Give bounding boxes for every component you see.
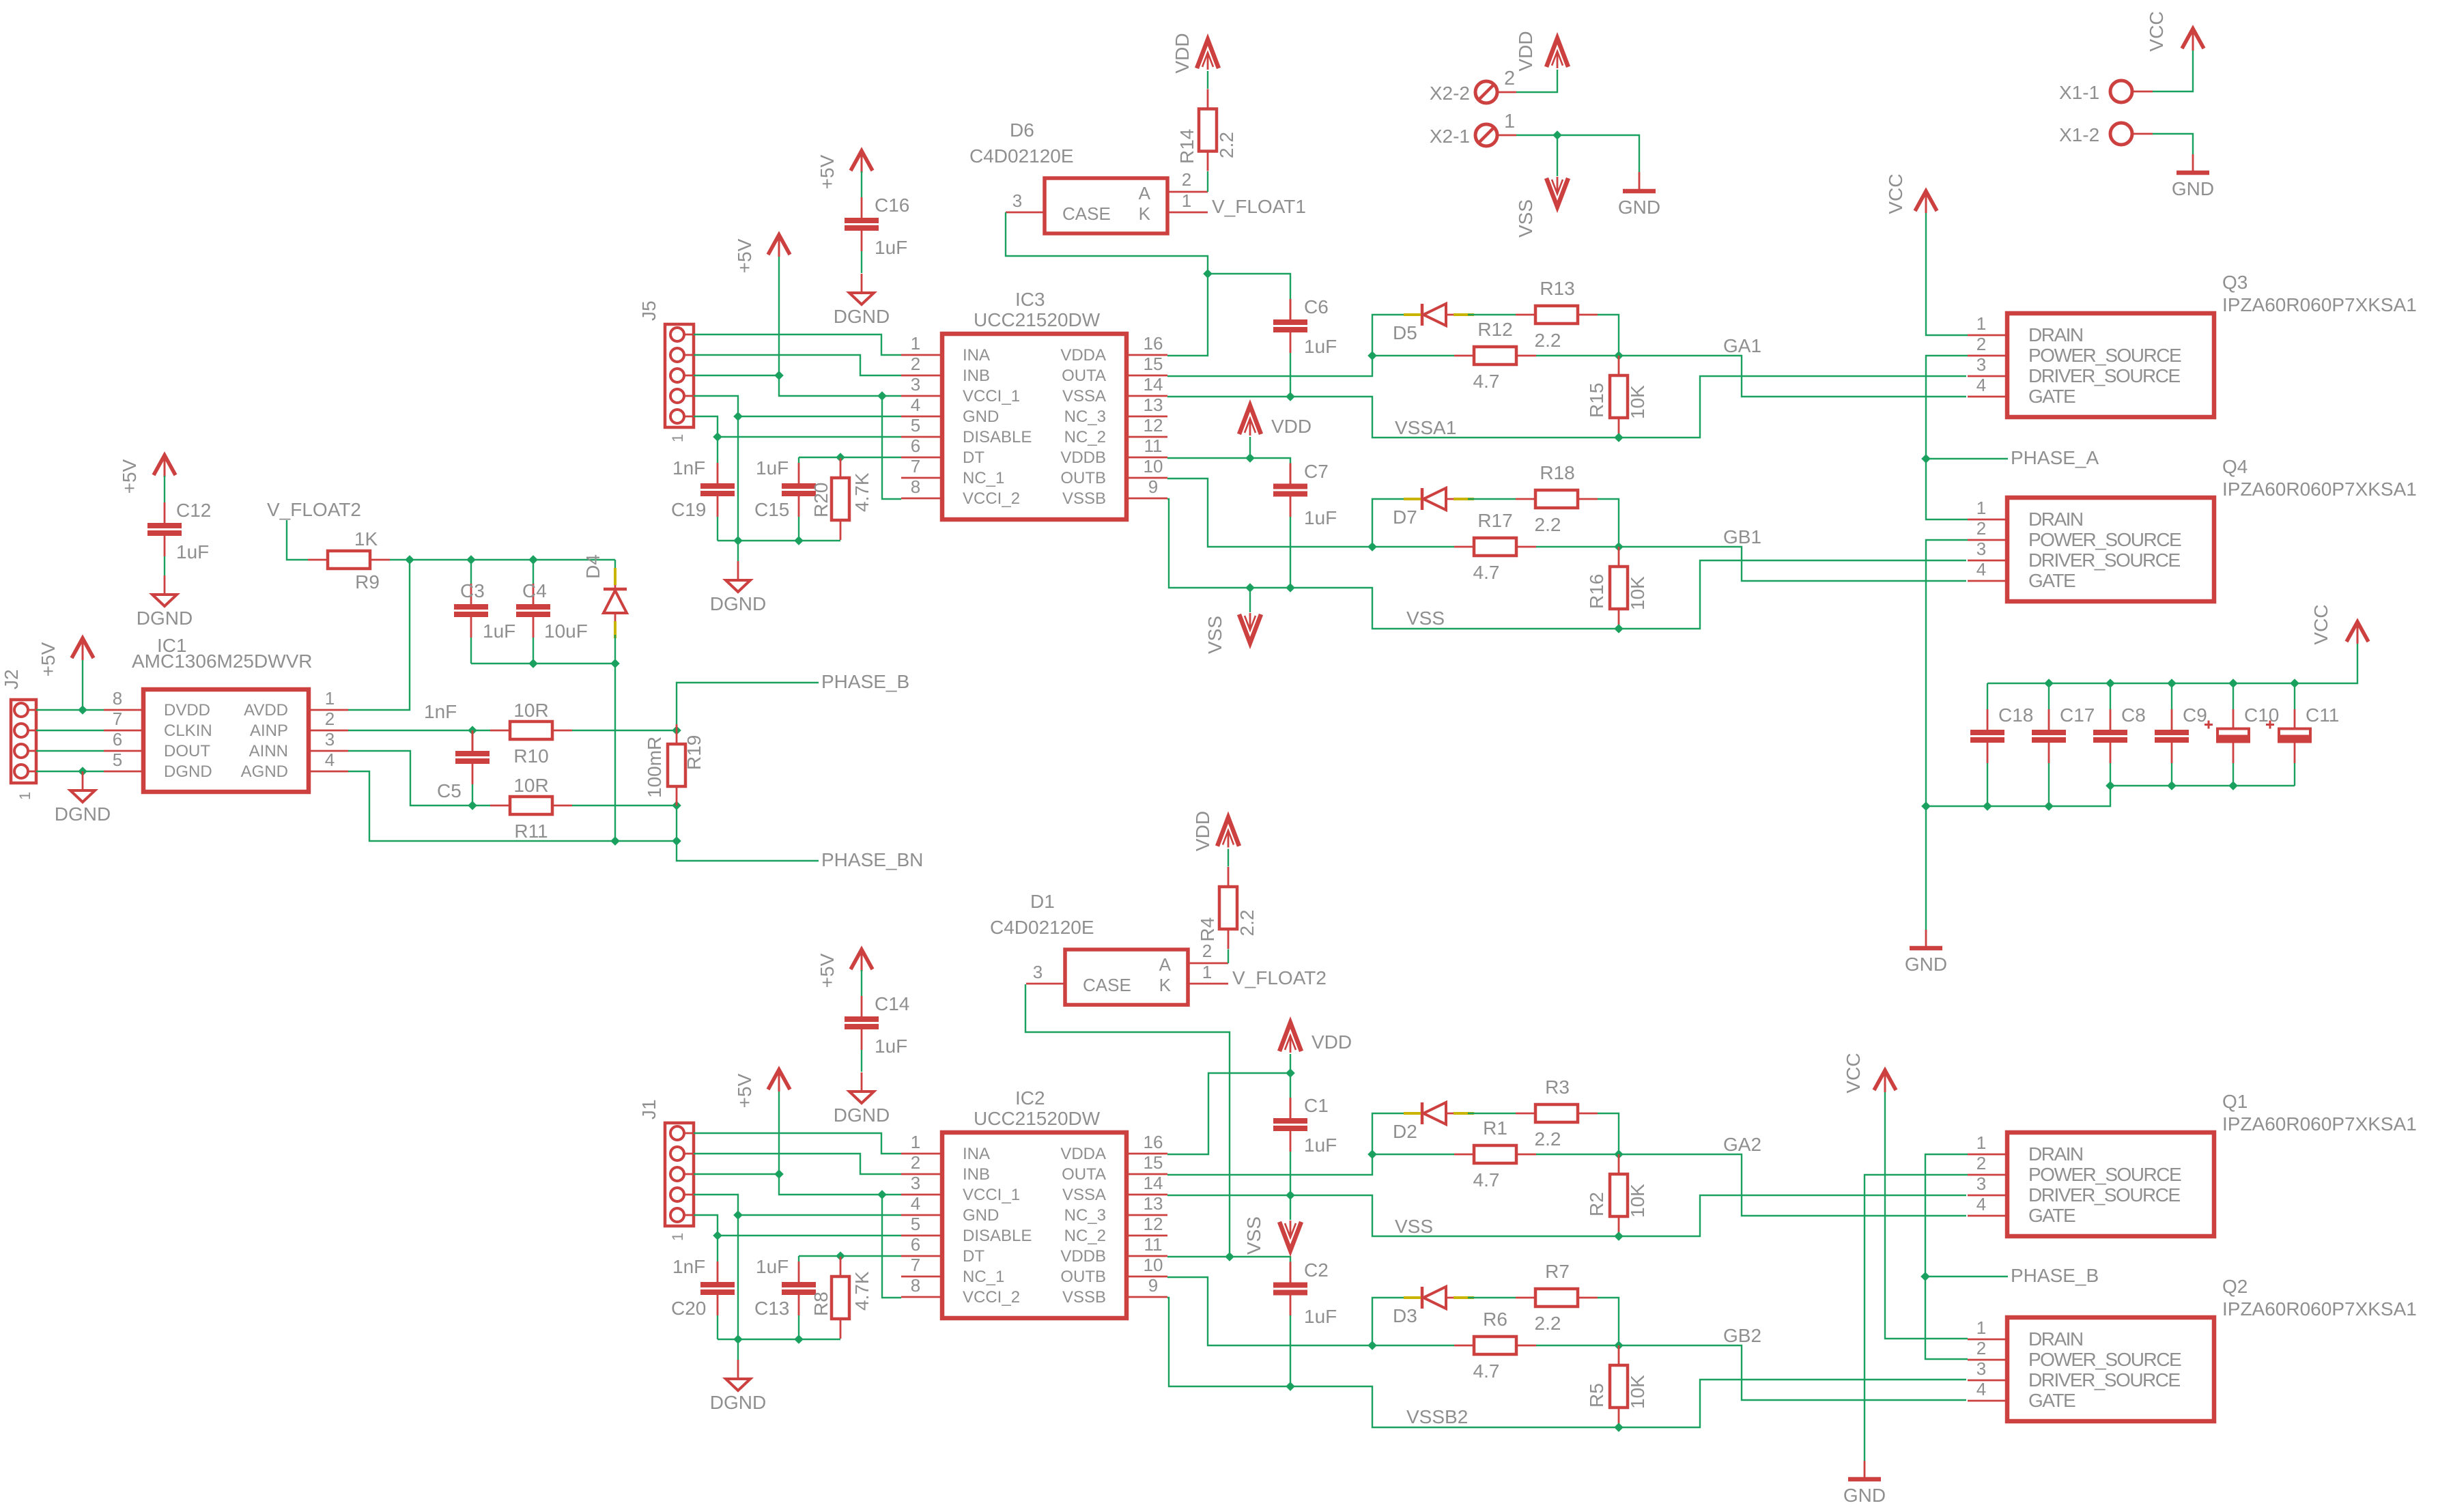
svg-text:VSSA: VSSA bbox=[1062, 1186, 1106, 1204]
svg-text:IPZA60R060P7XKSA1: IPZA60R060P7XKSA1 bbox=[2222, 479, 2417, 500]
svg-text:C2: C2 bbox=[1304, 1259, 1329, 1281]
svg-text:R9: R9 bbox=[355, 571, 380, 593]
label VSSB2 bbox=[1406, 1406, 1468, 1427]
capacitor C5 bbox=[424, 701, 490, 805]
wire D6 case bbox=[1006, 212, 1208, 274]
svg-text:VDDA: VDDA bbox=[1060, 346, 1106, 365]
svg-text:K: K bbox=[1139, 203, 1151, 224]
svg-text:R3: R3 bbox=[1545, 1076, 1570, 1098]
svg-text:3: 3 bbox=[1976, 1358, 1986, 1379]
svg-text:3: 3 bbox=[1012, 190, 1022, 211]
svg-text:10R: 10R bbox=[513, 700, 548, 721]
wire INB bbox=[694, 1154, 901, 1174]
svg-text:C5: C5 bbox=[437, 780, 462, 801]
svg-text:VSSA: VSSA bbox=[1062, 387, 1106, 405]
svg-text:PHASE_B: PHASE_B bbox=[821, 671, 909, 692]
label VSS bbox=[1406, 608, 1445, 629]
svg-text:NC_1: NC_1 bbox=[963, 1268, 1004, 1286]
label VSS bbox=[1395, 1216, 1433, 1237]
svg-text:2.2: 2.2 bbox=[1216, 132, 1237, 158]
svg-text:DRIVER_SOURCE: DRIVER_SOURCE bbox=[2028, 550, 2180, 571]
label V_FLOAT2 left bbox=[267, 499, 361, 560]
svg-text:Q2: Q2 bbox=[2222, 1276, 2248, 1297]
capacitor C4 bbox=[516, 560, 588, 664]
svg-text:2.2: 2.2 bbox=[1535, 330, 1561, 351]
svg-text:DRIVER_SOURCE: DRIVER_SOURCE bbox=[2028, 365, 2180, 386]
connector J5 bbox=[638, 300, 694, 442]
svg-text:13: 13 bbox=[1144, 395, 1163, 415]
svg-text:VDD: VDD bbox=[1312, 1031, 1352, 1053]
resistor R7 bbox=[1516, 1261, 1598, 1334]
capacitor C9 bbox=[2155, 683, 2207, 786]
svg-text:R12: R12 bbox=[1477, 319, 1512, 340]
resistor R4 bbox=[1197, 867, 1258, 949]
svg-text:D1: D1 bbox=[1030, 891, 1055, 912]
svg-text:C20: C20 bbox=[671, 1298, 706, 1319]
svg-text:10K: 10K bbox=[1627, 576, 1648, 610]
svg-text:VSS: VSS bbox=[1406, 608, 1445, 629]
svg-text:C12: C12 bbox=[176, 500, 211, 521]
svg-text:GB1: GB1 bbox=[1723, 526, 1761, 547]
svg-text:DT: DT bbox=[963, 1247, 984, 1266]
wire VSS-Q bbox=[1619, 1380, 1966, 1427]
svg-text:4.7K: 4.7K bbox=[851, 472, 873, 512]
wire R11-R19 bbox=[572, 801, 681, 810]
resistor R8 bbox=[810, 1257, 873, 1339]
svg-text:DRIVER_SOURCE: DRIVER_SOURCE bbox=[2028, 1184, 2180, 1206]
svg-text:8: 8 bbox=[911, 476, 920, 497]
capacitor C12 bbox=[147, 476, 211, 575]
svg-text:OUTB: OUTB bbox=[1060, 1268, 1106, 1286]
wire INA bbox=[694, 334, 901, 355]
wire D5-R13 bbox=[1468, 1113, 1516, 1114]
svg-text:6: 6 bbox=[113, 729, 122, 750]
power VCC X1 bbox=[2146, 11, 2204, 51]
svg-text:D2: D2 bbox=[1393, 1121, 1417, 1142]
svg-text:D6: D6 bbox=[1010, 119, 1034, 141]
svg-text:2.2: 2.2 bbox=[1236, 910, 1258, 937]
svg-text:IPZA60R060P7XKSA1: IPZA60R060P7XKSA1 bbox=[2222, 1113, 2417, 1135]
svg-text:R18: R18 bbox=[1540, 462, 1574, 483]
svg-text:NC_1: NC_1 bbox=[963, 469, 1004, 487]
svg-text:VCCI_1: VCCI_1 bbox=[963, 387, 1020, 405]
capacitor C14 bbox=[845, 970, 909, 1072]
wire D7-R18 bbox=[1468, 1297, 1516, 1298]
svg-text:DGND: DGND bbox=[834, 1104, 890, 1126]
svg-text:13: 13 bbox=[1144, 1193, 1163, 1214]
svg-text:DRAIN: DRAIN bbox=[2028, 324, 2083, 345]
svg-text:2: 2 bbox=[911, 1152, 920, 1173]
ground GND mid bbox=[1905, 930, 1947, 975]
svg-text:VCCI_2: VCCI_2 bbox=[963, 489, 1020, 508]
svg-text:C4: C4 bbox=[522, 580, 547, 601]
svg-text:3: 3 bbox=[1976, 354, 1986, 375]
svg-text:6: 6 bbox=[911, 436, 920, 456]
wire VSSA1-Q bbox=[1619, 376, 1966, 438]
svg-text:4.7K: 4.7K bbox=[851, 1271, 873, 1311]
resistor R3 bbox=[1516, 1076, 1598, 1150]
svg-text:NC_2: NC_2 bbox=[1064, 428, 1106, 446]
wire DISABLE bbox=[694, 1215, 901, 1240]
svg-text:Q3: Q3 bbox=[2222, 272, 2248, 293]
svg-text:2.2: 2.2 bbox=[1535, 514, 1561, 535]
capacitor C19 bbox=[671, 437, 735, 541]
svg-text:Q1: Q1 bbox=[2222, 1091, 2248, 1112]
svg-text:Q4: Q4 bbox=[2222, 456, 2248, 477]
svg-text:VDDB: VDDB bbox=[1060, 1247, 1106, 1266]
wire VSSB bbox=[1167, 1298, 1624, 1432]
power VDD top bbox=[1192, 811, 1239, 867]
wire R12a bbox=[1372, 355, 1454, 356]
wire dgnd rail bbox=[718, 1335, 840, 1360]
wire DOUT bbox=[36, 750, 104, 752]
svg-text:3: 3 bbox=[1033, 962, 1043, 982]
svg-text:C17: C17 bbox=[2060, 704, 2095, 726]
svg-text:10K: 10K bbox=[1627, 385, 1648, 419]
svg-text:J1: J1 bbox=[638, 1099, 660, 1119]
svg-text:V_FLOAT1: V_FLOAT1 bbox=[1212, 196, 1306, 217]
wire VCC-Q2 bbox=[1885, 1092, 1968, 1339]
wire OUTB bbox=[1167, 1277, 1406, 1350]
svg-text:+5V: +5V bbox=[817, 953, 838, 988]
svg-text:GATE: GATE bbox=[2028, 386, 2075, 407]
svg-text:DT: DT bbox=[963, 448, 984, 467]
wire INA bbox=[694, 1133, 901, 1154]
svg-text:AVDD: AVDD bbox=[244, 701, 288, 719]
wire D1 case bbox=[1025, 984, 1234, 1261]
svg-text:DRAIN: DRAIN bbox=[2028, 509, 2083, 530]
svg-text:14: 14 bbox=[1144, 1173, 1163, 1193]
ground DGND bbox=[710, 1360, 766, 1413]
svg-text:1: 1 bbox=[1504, 111, 1515, 132]
wire R9 rail bbox=[390, 555, 615, 565]
svg-text:1: 1 bbox=[911, 1132, 920, 1152]
svg-text:1: 1 bbox=[1976, 1132, 1986, 1153]
svg-text:GND: GND bbox=[963, 408, 999, 426]
svg-text:1: 1 bbox=[1976, 498, 1986, 518]
svg-text:IPZA60R060P7XKSA1: IPZA60R060P7XKSA1 bbox=[2222, 1298, 2417, 1320]
svg-text:DGND: DGND bbox=[834, 306, 890, 327]
svg-text:X1-2: X1-2 bbox=[2059, 124, 2099, 145]
svg-text:VCC: VCC bbox=[1885, 173, 1906, 214]
svg-text:DOUT: DOUT bbox=[164, 742, 210, 760]
wire R13-GA bbox=[1598, 1113, 1619, 1154]
svg-text:1uF: 1uF bbox=[1304, 1135, 1337, 1156]
svg-text:X2-2: X2-2 bbox=[1430, 83, 1470, 104]
wire R12a bbox=[1372, 1154, 1454, 1155]
wire DT bbox=[799, 453, 901, 462]
svg-text:8: 8 bbox=[911, 1275, 920, 1296]
power VDD X2 bbox=[1515, 31, 1568, 71]
wire CLKIN bbox=[36, 730, 104, 731]
svg-text:IC3: IC3 bbox=[1015, 289, 1045, 310]
svg-text:1: 1 bbox=[911, 333, 920, 354]
svg-text:C19: C19 bbox=[671, 499, 706, 520]
svg-text:OUTA: OUTA bbox=[1062, 1165, 1106, 1184]
resistor R1 bbox=[1454, 1117, 1536, 1190]
wire Q1-PHASE_B bbox=[1920, 1154, 1968, 1359]
capacitor C16 bbox=[845, 171, 909, 273]
svg-text:D3: D3 bbox=[1393, 1305, 1417, 1326]
wire GND pin4 bbox=[694, 1195, 901, 1339]
wire +5V to VCCI bbox=[694, 1091, 901, 1199]
wire DISABLE bbox=[694, 416, 901, 442]
power +5V C12 bbox=[119, 455, 175, 494]
svg-text:1nF: 1nF bbox=[672, 457, 705, 479]
svg-text:VSSB: VSSB bbox=[1062, 1288, 1106, 1307]
svg-text:R14: R14 bbox=[1176, 129, 1197, 164]
svg-text:VDD: VDD bbox=[1192, 811, 1213, 851]
resistor R12 bbox=[1454, 319, 1536, 392]
svg-text:16: 16 bbox=[1144, 1132, 1163, 1152]
power VSS X2 bbox=[1515, 177, 1568, 238]
svg-text:VSSB2: VSSB2 bbox=[1406, 1406, 1468, 1427]
svg-text:14: 14 bbox=[1144, 374, 1163, 395]
svg-text:2.2: 2.2 bbox=[1535, 1313, 1561, 1334]
label PHASE_A bbox=[1926, 447, 2099, 468]
svg-text:R5: R5 bbox=[1586, 1383, 1607, 1408]
capacitor C8 bbox=[2093, 683, 2146, 786]
svg-text:VSS: VSS bbox=[1243, 1216, 1264, 1255]
connector X1 bbox=[2059, 81, 2153, 145]
svg-text:DRAIN: DRAIN bbox=[2028, 1328, 2083, 1350]
svg-text:2: 2 bbox=[1976, 518, 1986, 539]
svg-text:3: 3 bbox=[325, 729, 335, 750]
svg-text:OUTB: OUTB bbox=[1060, 469, 1106, 487]
svg-text:1nF: 1nF bbox=[672, 1256, 705, 1277]
svg-text:V_FLOAT2: V_FLOAT2 bbox=[267, 499, 361, 520]
power VCC bank bbox=[2310, 604, 2368, 644]
svg-text:DGND: DGND bbox=[137, 608, 193, 629]
resistor R6 bbox=[1454, 1309, 1536, 1382]
diode D2 bbox=[1393, 1102, 1474, 1142]
svg-text:VDD: VDD bbox=[1515, 31, 1536, 71]
svg-text:CLKIN: CLKIN bbox=[164, 722, 212, 740]
svg-text:VSS: VSS bbox=[1204, 616, 1225, 654]
svg-text:4: 4 bbox=[1976, 1194, 1986, 1214]
power +5V col bbox=[817, 950, 873, 988]
svg-text:GND: GND bbox=[963, 1206, 999, 1225]
svg-text:7: 7 bbox=[911, 456, 920, 476]
power VDD top bbox=[1172, 33, 1219, 89]
svg-text:10K: 10K bbox=[1627, 1375, 1648, 1409]
svg-text:POWER_SOURCE: POWER_SOURCE bbox=[2028, 345, 2181, 366]
svg-text:DGND: DGND bbox=[55, 803, 111, 825]
svg-text:IC2: IC2 bbox=[1015, 1087, 1045, 1109]
ground GND X1 bbox=[2172, 154, 2214, 199]
svg-text:GATE: GATE bbox=[2028, 1205, 2075, 1226]
svg-text:C6: C6 bbox=[1304, 296, 1329, 317]
svg-text:2: 2 bbox=[911, 354, 920, 374]
svg-text:OUTA: OUTA bbox=[1062, 367, 1106, 385]
svg-text:C10: C10 bbox=[2244, 704, 2279, 726]
svg-text:VDD: VDD bbox=[1172, 33, 1193, 73]
transistor Q3 IPZA60R060P7XKSA1 bbox=[1968, 272, 2417, 417]
svg-text:1: 1 bbox=[1182, 190, 1191, 211]
diode D3 bbox=[1393, 1287, 1474, 1326]
resistor R11 bbox=[490, 775, 572, 842]
svg-text:AGND: AGND bbox=[241, 762, 288, 781]
svg-text:+5V: +5V bbox=[734, 238, 755, 273]
svg-text:VDD: VDD bbox=[1271, 416, 1312, 437]
svg-text:C3: C3 bbox=[460, 580, 485, 601]
svg-text:12: 12 bbox=[1144, 415, 1163, 436]
resistor R17 bbox=[1454, 510, 1536, 583]
resistor R2 bbox=[1586, 1154, 1648, 1236]
svg-text:R13: R13 bbox=[1540, 278, 1574, 299]
wire R13-GA bbox=[1598, 315, 1619, 356]
diode D4 bbox=[582, 554, 627, 638]
svg-text:1uF: 1uF bbox=[1304, 507, 1337, 528]
ground DGND bbox=[710, 561, 766, 614]
svg-text:J2: J2 bbox=[1, 669, 22, 689]
resistor R20 bbox=[810, 458, 873, 540]
svg-text:DVDD: DVDD bbox=[164, 701, 210, 719]
ground DGND col bbox=[834, 274, 890, 327]
svg-text:1: 1 bbox=[669, 1233, 686, 1241]
wire R12b bbox=[1536, 355, 1619, 356]
wire D7-R18 bbox=[1468, 498, 1516, 500]
IC IC3 UCC21520DW bbox=[901, 289, 1167, 519]
svg-text:4: 4 bbox=[1976, 1379, 1986, 1399]
ground GND bot bbox=[1843, 1461, 1886, 1506]
svg-text:C18: C18 bbox=[1998, 704, 2033, 726]
diode module D6 C4D02120E bbox=[969, 119, 1208, 233]
svg-text:R17: R17 bbox=[1477, 510, 1512, 531]
connector J1 bbox=[638, 1099, 694, 1241]
power +5V col bbox=[817, 151, 873, 189]
wire GND pin4 bbox=[694, 396, 901, 541]
resistor R9 bbox=[308, 528, 390, 593]
svg-text:1uF: 1uF bbox=[756, 1256, 789, 1277]
svg-text:10: 10 bbox=[1144, 456, 1163, 476]
wire VDDA2 bbox=[1167, 1068, 1295, 1154]
svg-text:2: 2 bbox=[325, 709, 335, 729]
power VCC top bbox=[1885, 173, 1937, 214]
capacitor C13 bbox=[754, 1256, 816, 1339]
svg-text:15: 15 bbox=[1144, 354, 1163, 374]
wire cap gnd rail bbox=[471, 635, 620, 668]
wire DT bbox=[799, 1251, 901, 1261]
svg-text:AINN: AINN bbox=[249, 742, 288, 760]
transistor Q1 IPZA60R060P7XKSA1 bbox=[1968, 1091, 2417, 1236]
svg-text:4: 4 bbox=[911, 1193, 920, 1214]
svg-text:VCC: VCC bbox=[2310, 604, 2331, 644]
svg-text:1uF: 1uF bbox=[483, 621, 515, 642]
wire VCCI_2 bbox=[882, 396, 901, 499]
svg-text:1: 1 bbox=[325, 688, 335, 709]
svg-text:10uF: 10uF bbox=[544, 621, 588, 642]
svg-text:X1-1: X1-1 bbox=[2059, 82, 2099, 103]
svg-text:15: 15 bbox=[1144, 1152, 1163, 1173]
wire R14-D6 bbox=[1228, 950, 1229, 964]
wire X1-2 GND bbox=[2153, 134, 2193, 154]
label VSSA1 bbox=[1395, 417, 1456, 438]
capacitor C1 bbox=[1273, 1095, 1337, 1195]
capacitor C20 bbox=[671, 1236, 735, 1339]
svg-text:1: 1 bbox=[1976, 1317, 1986, 1338]
svg-text:2: 2 bbox=[1504, 68, 1515, 89]
svg-text:GND: GND bbox=[1618, 197, 1660, 218]
svg-text:12: 12 bbox=[1144, 1214, 1163, 1234]
wire D4-AGND bbox=[610, 664, 620, 846]
node GA2 bbox=[1614, 1134, 1966, 1216]
svg-text:POWER_SOURCE: POWER_SOURCE bbox=[2028, 529, 2181, 550]
svg-text:VCCI_2: VCCI_2 bbox=[963, 1288, 1020, 1307]
svg-text:X2-1: X2-1 bbox=[1430, 126, 1470, 147]
svg-text:1uF: 1uF bbox=[1304, 1306, 1337, 1327]
svg-text:VSSB: VSSB bbox=[1062, 489, 1106, 508]
svg-text:R10: R10 bbox=[513, 745, 548, 767]
diode D5 bbox=[1393, 304, 1474, 343]
svg-text:D7: D7 bbox=[1393, 507, 1417, 528]
svg-text:UCC21520DW: UCC21520DW bbox=[974, 309, 1101, 330]
svg-text:R16: R16 bbox=[1586, 574, 1607, 609]
wire AINN bbox=[348, 751, 490, 810]
connector X2 bbox=[1430, 68, 1516, 147]
svg-text:3: 3 bbox=[911, 1173, 920, 1193]
wire R18-GB bbox=[1598, 499, 1619, 547]
svg-text:DGND: DGND bbox=[710, 593, 766, 614]
resistor R15 bbox=[1586, 356, 1648, 438]
wire X2-2 VDD bbox=[1516, 70, 1557, 92]
svg-text:AINP: AINP bbox=[250, 722, 288, 740]
svg-text:K: K bbox=[1159, 975, 1172, 995]
wire VSSA1-Q bbox=[1619, 1195, 1966, 1236]
svg-text:16: 16 bbox=[1144, 333, 1163, 354]
svg-text:4: 4 bbox=[911, 395, 920, 415]
wire Q1src-GND bbox=[1865, 1175, 1968, 1461]
svg-text:NC_3: NC_3 bbox=[1064, 408, 1106, 426]
svg-text:R4: R4 bbox=[1197, 917, 1218, 942]
svg-text:NC_2: NC_2 bbox=[1064, 1227, 1106, 1245]
svg-text:2.2: 2.2 bbox=[1535, 1128, 1561, 1150]
svg-text:1: 1 bbox=[669, 434, 686, 442]
svg-text:CASE: CASE bbox=[1083, 975, 1131, 995]
wire R18-GB bbox=[1598, 1298, 1619, 1345]
svg-text:4.7: 4.7 bbox=[1473, 1360, 1500, 1382]
wire OUTB bbox=[1167, 479, 1406, 552]
label PHASE_B bbox=[1925, 1265, 2099, 1286]
svg-text:DGND: DGND bbox=[710, 1392, 766, 1413]
label V_FLOAT2 bbox=[1232, 967, 1327, 988]
capacitor C17 bbox=[2032, 683, 2095, 806]
wire DVDD bbox=[36, 659, 104, 715]
svg-text:DISABLE: DISABLE bbox=[963, 1227, 1032, 1245]
capacitor C11 bbox=[2266, 683, 2339, 786]
svg-text:GA2: GA2 bbox=[1723, 1134, 1761, 1155]
wire VSS-Q bbox=[1619, 560, 1966, 629]
ground GND X2 bbox=[1618, 172, 1660, 218]
svg-text:10R: 10R bbox=[513, 775, 548, 796]
svg-text:C4D02120E: C4D02120E bbox=[969, 145, 1074, 167]
svg-text:DRIVER_SOURCE: DRIVER_SOURCE bbox=[2028, 1369, 2180, 1390]
wire R10-R19 bbox=[572, 726, 681, 735]
svg-text:1nF: 1nF bbox=[424, 701, 457, 722]
svg-text:POWER_SOURCE: POWER_SOURCE bbox=[2028, 1164, 2181, 1185]
wire VDDB bbox=[1167, 453, 1290, 463]
ground DGND col bbox=[834, 1072, 890, 1126]
svg-text:D4: D4 bbox=[582, 554, 604, 579]
svg-text:4.7: 4.7 bbox=[1473, 371, 1500, 392]
svg-text:1uF: 1uF bbox=[875, 237, 907, 258]
resistor R19 bbox=[644, 724, 705, 806]
svg-text:VSS: VSS bbox=[1515, 199, 1536, 238]
svg-text:C14: C14 bbox=[875, 993, 909, 1014]
wire R17a bbox=[1372, 546, 1454, 547]
resistor R14 bbox=[1176, 89, 1237, 171]
svg-text:IPZA60R060P7XKSA1: IPZA60R060P7XKSA1 bbox=[2222, 294, 2417, 315]
